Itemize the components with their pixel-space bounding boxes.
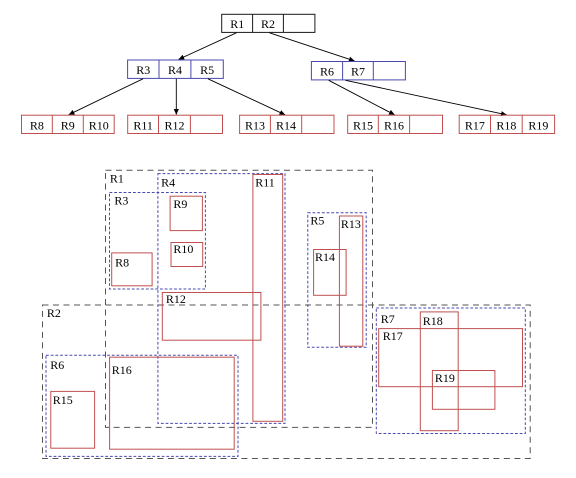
- map rect R12: [162, 292, 261, 340]
- svg-text:R18: R18: [423, 314, 443, 328]
- svg-text:R17: R17: [383, 329, 403, 343]
- tree node [R6|R7|_]: [311, 62, 405, 80]
- map region R5 dashed blue: [308, 213, 366, 347]
- svg-text:R10: R10: [89, 118, 109, 132]
- tree leaf [R8|R9|R10]: [22, 115, 115, 133]
- map rect R9: [170, 196, 202, 230]
- svg-text:R19: R19: [435, 371, 455, 385]
- arrow R4 to leaf [R11R12]: [175, 79, 177, 115]
- svg-text:R7: R7: [351, 64, 365, 78]
- svg-text:R8: R8: [115, 255, 129, 269]
- svg-text:R14: R14: [276, 118, 296, 132]
- map rect R17: [379, 329, 523, 387]
- svg-text:R9: R9: [61, 118, 75, 132]
- arrow root R1 to node [R3R4R5]: [179, 33, 237, 60]
- map region R6 dashed blue: [46, 355, 238, 456]
- svg-text:R14: R14: [315, 250, 335, 264]
- tree leaf [R17|R18|R19]: [459, 115, 554, 133]
- arrow root R2 to node [R6R7]: [270, 33, 355, 61]
- map region R7 dashed blue: [376, 308, 525, 434]
- map rect R14: [314, 250, 347, 296]
- svg-text:R12: R12: [166, 292, 186, 306]
- map rect R19: [432, 371, 495, 410]
- map rect R15: [51, 391, 95, 448]
- svg-text:R6: R6: [50, 358, 64, 372]
- svg-text:R7: R7: [381, 312, 395, 326]
- map region R3 dashed blue: [110, 193, 206, 290]
- tree leaf [R11|R12|_]: [128, 115, 223, 133]
- svg-text:R3: R3: [136, 63, 150, 77]
- map rect R13: [339, 216, 362, 346]
- map rect R8: [112, 253, 152, 286]
- svg-text:R4: R4: [168, 63, 182, 77]
- svg-text:R13: R13: [341, 217, 361, 231]
- svg-text:R3: R3: [114, 194, 128, 208]
- svg-text:R10: R10: [173, 242, 193, 256]
- svg-text:R1: R1: [110, 172, 124, 186]
- arrow R5 to leaf [R13R14]: [208, 79, 285, 115]
- map region R2 dashed gray: [43, 305, 531, 459]
- svg-text:R2: R2: [261, 17, 275, 31]
- svg-text:R13: R13: [245, 118, 265, 132]
- tree leaf [R15|R16|_]: [348, 115, 443, 133]
- arrow R7 to leaf [R17R18R19]: [346, 80, 507, 115]
- map rect R16: [110, 357, 235, 449]
- map region R4 dashed blue: [158, 174, 285, 424]
- svg-text:R15: R15: [53, 393, 73, 407]
- svg-text:R8: R8: [30, 118, 44, 132]
- svg-text:R5: R5: [310, 214, 324, 228]
- svg-text:R6: R6: [320, 64, 334, 78]
- svg-text:R11: R11: [255, 175, 275, 189]
- svg-text:R1: R1: [230, 17, 244, 31]
- map rect R18: [420, 312, 458, 431]
- map region R1 dashed gray: [106, 170, 373, 427]
- svg-text:R17: R17: [465, 118, 485, 132]
- svg-text:R11: R11: [133, 118, 153, 132]
- svg-text:R2: R2: [47, 306, 61, 320]
- arrow R3 to leaf [R8R9R10]: [69, 79, 143, 115]
- svg-text:R5: R5: [200, 63, 214, 77]
- tree root node [R1|R2|_]: [222, 14, 315, 32]
- svg-text:R15: R15: [353, 118, 373, 132]
- tree node [R3|R4|R5]: [128, 60, 224, 78]
- svg-text:R4: R4: [161, 175, 175, 189]
- svg-text:R19: R19: [528, 118, 548, 132]
- map rect R10: [171, 242, 203, 266]
- svg-text:R16: R16: [112, 363, 132, 377]
- arrow R6 to leaf [R15R16]: [329, 80, 395, 115]
- map rect R11: [253, 175, 283, 422]
- svg-text:R12: R12: [164, 118, 184, 132]
- svg-text:R16: R16: [384, 118, 404, 132]
- tree leaf [R13|R14|_]: [240, 115, 334, 133]
- svg-text:R9: R9: [173, 197, 187, 211]
- svg-text:R18: R18: [496, 118, 516, 132]
